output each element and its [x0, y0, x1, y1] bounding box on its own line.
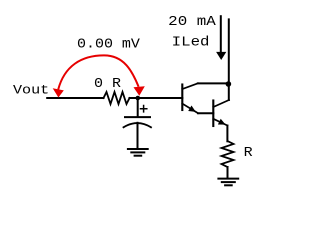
svg-text:0.00 mV: 0.00 mV: [77, 38, 140, 53]
svg-text:0 R: 0 R: [94, 77, 121, 92]
svg-text:Vout: Vout: [13, 83, 49, 98]
svg-text:R: R: [244, 146, 253, 161]
svg-text:20 mA: 20 mA: [168, 15, 216, 30]
svg-text:ILed: ILed: [172, 34, 210, 50]
